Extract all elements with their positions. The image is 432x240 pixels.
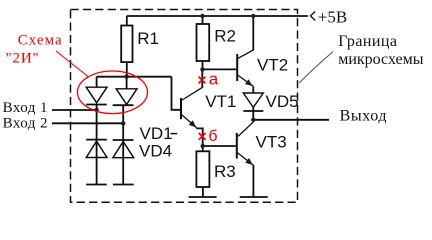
node VT2 collector junction	[251, 14, 255, 18]
svg-text:VT1: VT1	[205, 92, 236, 111]
diode VD1	[86, 87, 107, 104]
node input 1 junction	[94, 108, 98, 112]
wire input 2	[52, 122, 123, 124]
wire left input column	[96, 105, 98, 185]
arrow VT3 emitter	[245, 158, 253, 165]
svg-text:+5В: +5В	[318, 8, 347, 27]
resistor R3	[196, 146, 209, 197]
ground R3	[189, 196, 217, 198]
svg-text:R3: R3	[214, 162, 236, 181]
ground left input	[86, 184, 107, 186]
svg-text:R1: R1	[137, 29, 159, 48]
svg-text:Вход 2: Вход 2	[3, 115, 48, 131]
wire output	[253, 119, 329, 121]
svg-text:б: б	[208, 128, 217, 145]
arrow VT1 emitter	[189, 120, 197, 127]
node R2 top junction	[200, 14, 204, 18]
svg-text:VT2: VT2	[257, 56, 288, 75]
wire right diode top drop	[126, 77, 128, 89]
wire diode common node horizontal	[97, 76, 172, 78]
node R1 bottom junction	[124, 75, 128, 79]
svg-text:Схема: Схема	[18, 33, 63, 49]
node output junction	[251, 118, 255, 122]
junction dots	[94, 14, 255, 165]
chip boundary dashed border	[71, 10, 298, 203]
svg-text:VD1: VD1	[140, 124, 173, 143]
wire right input column	[122, 105, 124, 184]
node b cross	[199, 133, 206, 140]
callout line to 2AND label	[56, 51, 88, 77]
node a junction	[200, 67, 204, 71]
svg-text:Вход 1: Вход 1	[3, 100, 48, 116]
svg-text:Граница: Граница	[338, 33, 397, 50]
resistor R2	[197, 16, 210, 69]
ground right input	[113, 184, 134, 186]
transistor VT2	[237, 16, 253, 93]
node a cross	[199, 77, 206, 84]
svg-text:Выход: Выход	[340, 107, 388, 124]
svg-text:VD5: VD5	[266, 92, 299, 111]
callout line to boundary label	[299, 52, 333, 84]
wire +5V top rail	[127, 15, 308, 17]
wire node a to VT2 base	[203, 68, 237, 70]
diode VD4	[113, 140, 134, 158]
transistor VT3	[203, 122, 254, 197]
diode VD3	[86, 140, 107, 158]
svg-text:микросхемы: микросхемы	[338, 51, 424, 68]
svg-text:VD4: VD4	[139, 141, 172, 160]
svg-text:а: а	[209, 69, 219, 88]
svg-text:"2И": "2И"	[6, 51, 40, 67]
wire left diode top drop	[96, 77, 98, 88]
node b junction	[201, 144, 205, 148]
transistor VT1	[181, 69, 203, 146]
arrow VT2 emitter	[245, 79, 253, 86]
labels	[137, 26, 298, 181]
node input 2 junction	[121, 121, 125, 125]
diode VD5	[243, 93, 263, 120]
svg-text:R2: R2	[214, 26, 236, 45]
svg-text:VT3: VT3	[256, 133, 287, 152]
wire base feed VT1	[172, 77, 182, 110]
diode VD2	[113, 89, 137, 105]
wire input 1	[52, 109, 97, 111]
ellipse highlight 2AND	[78, 71, 148, 114]
ground VT3 emitter	[240, 196, 268, 198]
terminal +5V chevron	[310, 12, 315, 21]
resistor R1	[121, 16, 132, 77]
